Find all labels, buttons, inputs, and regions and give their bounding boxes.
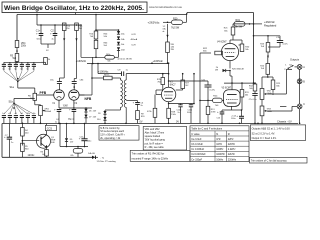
rail +160Vdc <box>87 62 168 64</box>
resistor R41 <box>21 123 30 146</box>
svg-text:33p: 33p <box>33 113 36 115</box>
capacitor Cb2 <box>8 116 12 124</box>
label +100Vdc <box>98 69 109 73</box>
svg-text:Alps ‘black’ 27mm: Alps ‘black’ 27mm <box>145 132 165 135</box>
lamp LP1 <box>71 147 83 158</box>
label 1.2mA dc <box>163 26 167 33</box>
svg-text:100u: 100u <box>87 140 91 142</box>
svg-text:2.2kHz: 2.2kHz <box>228 148 237 151</box>
labels D9 D10 <box>97 113 100 121</box>
svg-text:Output C = fixed 1.4V.: Output C = fixed 1.4V. <box>252 136 277 140</box>
zener D6 <box>84 109 87 115</box>
svg-text:D10: D10 <box>97 119 100 121</box>
resistor R6b <box>94 39 108 57</box>
wire tube1 top <box>58 84 60 90</box>
resistor R31 <box>240 83 249 110</box>
wire A-B <box>299 69 301 104</box>
resistor R1b <box>89 31 108 39</box>
pot VR2 <box>260 89 272 100</box>
wire v2 plate <box>168 62 170 87</box>
resistor R19 oval <box>234 22 245 27</box>
svg-text:Table for C and F selections: Table for C and F selections <box>191 128 223 131</box>
svg-text:all when 28.5W: all when 28.5W <box>118 59 132 61</box>
capacitor C11 <box>202 79 216 91</box>
label +262Vdc Regulated <box>264 20 277 27</box>
capacitor Ce2 <box>26 116 30 124</box>
resistor R28 <box>167 108 177 123</box>
svg-text:VR1 and VR2: VR1 and VR2 <box>145 128 161 131</box>
table C and F <box>190 126 249 162</box>
svg-text:500u: 500u <box>37 39 41 41</box>
svg-text:62k: 62k <box>71 155 74 157</box>
wire s1a common <box>18 82 35 94</box>
resistor R51 <box>21 143 30 157</box>
capacitor C7b <box>268 36 289 47</box>
pot VR1 <box>39 106 52 116</box>
svg-text:400mA: 400mA <box>131 38 138 41</box>
switch S1a <box>4 71 34 82</box>
svg-text:Outputs: Outputs <box>290 57 300 61</box>
svg-text:Outputs A&B S2 at 1, 1.4V to 1: Outputs A&B S2 at 1, 1.4V to 16V, <box>252 127 291 131</box>
label S1a <box>10 86 15 89</box>
svg-text:4u: 4u <box>52 39 54 41</box>
capacitor Ce <box>26 62 30 70</box>
resistor R18 <box>166 38 170 64</box>
labels D6 D7 <box>89 111 97 119</box>
capacitor Cc <box>14 62 18 70</box>
labels zener D4 <box>121 33 125 51</box>
svg-text:Ce: Ce <box>26 69 28 71</box>
capacitor C1 <box>36 25 43 44</box>
capacitor C11b2 <box>79 123 91 147</box>
wire B+ rail top <box>17 13 187 15</box>
label V3 <box>217 41 227 43</box>
svg-text:56k: 56k <box>104 36 107 38</box>
label 12Vdc <box>28 154 36 157</box>
resistor R13 <box>206 100 215 124</box>
tube V1a <box>54 90 65 101</box>
resistor R29 <box>147 95 157 124</box>
svg-text:Cc 0.033uF: Cc 0.033uF <box>191 148 204 151</box>
capacitor C4 <box>54 108 61 123</box>
svg-text:R - 49k, see table: R - 49k, see table <box>145 146 165 149</box>
switch S1b <box>4 102 34 114</box>
wire r24b node <box>262 76 273 88</box>
svg-text:Ca: Ca <box>2 69 4 71</box>
bank1 value labels <box>2 69 34 71</box>
label C6 <box>141 103 145 108</box>
svg-text:R20: R20 <box>173 18 178 21</box>
svg-text:22Hz: 22Hz <box>228 138 235 141</box>
note box VR1 VR2 <box>143 127 186 151</box>
svg-text:7k2 5W: 7k2 5W <box>171 26 180 29</box>
label R18 <box>171 44 175 51</box>
capacitor C13 <box>217 110 232 124</box>
svg-text:6.2V: 6.2V <box>132 45 137 47</box>
website note <box>149 5 183 9</box>
label C5 <box>72 119 75 121</box>
label R19 <box>234 19 243 29</box>
svg-text:Cd 0.0033uF: Cd 0.0033uF <box>191 153 206 156</box>
wire 262reg branch <box>233 23 262 25</box>
wire vr3 gnd <box>261 116 263 124</box>
wire left drop <box>16 15 18 41</box>
svg-text:u33: u33 <box>8 113 11 115</box>
svg-text:39k 5W: 39k 5W <box>234 26 243 29</box>
svg-text:‘6X8’: ‘6X8’ <box>63 106 69 108</box>
svg-text:D4b 6B: D4b 6B <box>88 153 95 155</box>
wire grid v1a <box>37 94 54 96</box>
wire v2 cathode <box>168 102 170 109</box>
svg-text:220Hz: 220Hz <box>228 143 236 146</box>
ps bottom rail <box>2 124 92 158</box>
resistor R32 <box>249 82 257 93</box>
svg-text:pot, fix R value =: pot, fix R value = <box>145 142 164 145</box>
label 0V mid <box>140 120 180 123</box>
svg-text:Ce 330pF: Ce 330pF <box>191 158 202 161</box>
label V1 <box>52 103 78 108</box>
wire vr1 gnd <box>40 116 42 125</box>
label Q1 <box>51 137 56 144</box>
wire vr3 wiper out <box>267 106 297 111</box>
resistor R20 oval <box>172 13 187 25</box>
switch S2 <box>284 64 293 71</box>
wire bus 25 <box>36 14 82 26</box>
label C2 <box>51 30 55 41</box>
capacitor Ca2 <box>2 116 6 124</box>
svg-text:S2 at 2 0.2V to 1.4V.: S2 at 2 0.2V to 1.4V. <box>252 131 276 135</box>
svg-text:0.47u: 0.47u <box>210 90 216 92</box>
svg-text:D6: D6 <box>89 111 91 113</box>
wire s2 A <box>295 66 298 68</box>
resistor R7b <box>157 74 165 88</box>
capacitor C6 <box>126 101 140 111</box>
note box outputs <box>250 125 305 140</box>
resistor R27 <box>176 73 190 90</box>
svg-text:56k: 56k <box>249 88 252 90</box>
svg-text:3u3: 3u3 <box>2 113 5 115</box>
label +160Vdc left <box>76 59 87 63</box>
label PFB <box>40 91 47 95</box>
resistor R25 <box>271 80 281 93</box>
svg-text:u03: u03 <box>14 113 17 115</box>
transformer T1 primary <box>121 80 123 107</box>
svg-text:C11+: C11+ <box>80 137 86 139</box>
label PT winding <box>97 157 117 163</box>
capacitor C7c <box>249 94 258 125</box>
switch S1b common <box>14 99 35 104</box>
capacitor Cc2 <box>14 116 18 124</box>
svg-text:square bodied: square bodied <box>145 135 161 138</box>
label +262Vdc <box>148 21 160 25</box>
resistor R6 <box>28 93 37 100</box>
resistor R9 <box>136 111 146 124</box>
svg-text:C value: C value <box>191 133 200 136</box>
svg-text:3.9M: 3.9M <box>211 112 216 114</box>
svg-text:50k: 50k <box>107 61 110 63</box>
label C11b <box>187 110 193 115</box>
svg-text:0V: 0V <box>176 121 179 124</box>
svg-text:+160Vdc: +160Vdc <box>153 59 164 63</box>
resistor VR4 <box>15 41 27 48</box>
label chassis <box>277 120 292 124</box>
wire r24 out <box>222 99 224 101</box>
wire q1 collector <box>46 124 48 132</box>
svg-text:330p: 330p <box>27 113 31 115</box>
svg-text:56k: 56k <box>245 94 248 96</box>
tube V1b <box>69 90 79 100</box>
label C10b <box>177 110 183 115</box>
wire tube2 top <box>73 84 75 90</box>
capacitor C8a <box>50 80 62 84</box>
capacitor Cb <box>8 62 12 70</box>
svg-text:2u: 2u <box>178 112 180 114</box>
wire v2 plate out <box>168 73 208 104</box>
wire vr2 wiper out <box>267 69 292 94</box>
svg-text:470k: 470k <box>147 111 151 113</box>
label S1b <box>9 101 14 104</box>
wire t1 sec top <box>125 74 127 80</box>
bank2 value labels <box>2 113 35 115</box>
label Outputs <box>290 57 300 61</box>
pot VR3 <box>260 106 272 116</box>
svg-text:Trim values of C for dial accu: Trim values of C for dial accuracy <box>251 160 288 163</box>
svg-text:CCS: CCS <box>47 127 53 130</box>
wire v4 plate rail <box>224 82 254 84</box>
wire v4 cathode <box>232 106 243 110</box>
zener D7 <box>84 115 87 124</box>
svg-text:+262Vdc: +262Vdc <box>148 21 160 25</box>
svg-text:500u: 500u <box>187 112 191 114</box>
wire B+ rail upper right <box>187 13 254 15</box>
wire v3 cathode <box>229 61 231 69</box>
wire plate col 1 <box>59 41 64 82</box>
label zener watts <box>118 59 132 61</box>
wire chassis <box>280 106 300 124</box>
label V4 <box>222 88 232 90</box>
capacitor Ca <box>2 62 6 70</box>
svg-text:3n3: 3n3 <box>20 113 23 115</box>
zener stack D4 <box>114 30 120 57</box>
svg-text:D4c: D4c <box>121 44 124 46</box>
ground rail <box>2 123 298 125</box>
svg-text:Cb: Cb <box>8 69 10 71</box>
transformer T1 secondary <box>124 80 126 107</box>
svg-text:D7: D7 <box>89 116 91 118</box>
svg-text:0V: 0V <box>140 120 143 123</box>
resistor R8 <box>92 74 121 80</box>
tube V4 envelope <box>224 90 241 107</box>
note box trim R <box>130 150 190 161</box>
resistor R2a <box>75 23 83 41</box>
wire t1 sec bottom <box>125 107 127 123</box>
resistor R21 <box>224 24 235 44</box>
capacitor C2 <box>50 25 57 44</box>
svg-text:12.6Vac PT winding: 12.6Vac PT winding <box>97 161 117 163</box>
svg-text:Regulated: Regulated <box>264 23 277 27</box>
svg-text:Cb 0.33uF: Cb 0.33uF <box>191 143 203 146</box>
svg-text:2u: 2u <box>11 142 13 144</box>
wire v3 to v4 plate <box>230 71 232 84</box>
capacitor Cd <box>20 62 24 70</box>
tube V3 <box>221 43 238 60</box>
svg-text:D4b: D4b <box>121 39 124 41</box>
wire r6-vr1 <box>35 100 41 105</box>
label C1 <box>36 30 41 41</box>
svg-text:200k: 200k <box>21 45 27 47</box>
svg-text:NFB: NFB <box>85 97 92 101</box>
svg-text:1W: 1W <box>215 70 218 72</box>
lamp bus <box>60 146 88 148</box>
zener D10 <box>103 117 106 123</box>
svg-text:1Hz: 1Hz <box>216 138 221 141</box>
svg-text:10Hz: 10Hz <box>216 143 223 146</box>
labels zener volts <box>131 34 138 47</box>
svg-text:5k6A: 5k6A <box>267 110 272 113</box>
current arrow <box>166 24 168 38</box>
wire vr4-r5 <box>16 48 18 54</box>
svg-text:R26 1N4148: R26 1N4148 <box>232 68 245 70</box>
label R20 <box>171 18 180 30</box>
svg-text:dc: dc <box>163 31 165 33</box>
wire 262 to 160 drop <box>81 25 105 64</box>
svg-text:www.homebuiltaudio.com.au: www.homebuiltaudio.com.au <box>149 5 183 9</box>
capacitor C8b <box>72 80 84 84</box>
trimmer CT <box>41 58 50 65</box>
label C4 <box>55 119 59 124</box>
svg-text:220kHz: 220kHz <box>228 158 237 161</box>
wire v1b cathode <box>59 100 92 109</box>
svg-text:R8 1k: R8 1k <box>104 74 110 76</box>
svg-text:C7c 0.1u: C7c 0.1u <box>249 99 257 101</box>
capacitor C11b <box>189 104 193 124</box>
svg-text:Cc: Cc <box>14 69 16 71</box>
title box <box>2 2 147 13</box>
resistor R5a <box>10 54 19 63</box>
wire right vertical feed <box>253 13 255 84</box>
svg-text:100u: 100u <box>231 118 235 120</box>
zener D9 <box>103 111 106 117</box>
resistor R61 <box>40 150 48 158</box>
resistor R22 <box>200 48 222 55</box>
svg-text:S1a: S1a <box>10 86 15 89</box>
connector C <box>297 104 305 109</box>
svg-text:C1+: C1+ <box>36 30 41 33</box>
wire t1 prim bottom <box>105 107 121 111</box>
svg-text:2u: 2u <box>55 122 57 124</box>
wire right col r23 <box>253 35 280 37</box>
capacitor C5 <box>69 108 76 123</box>
label NFB <box>85 97 92 101</box>
svg-text:Ca 3.3uF: Ca 3.3uF <box>191 138 202 141</box>
wire pfb <box>30 91 38 94</box>
svg-text:+100Vdc: +100Vdc <box>98 69 109 73</box>
svg-text:V4 6CM7: V4 6CM7 <box>217 41 227 43</box>
label 6V <box>68 118 71 121</box>
svg-text:100kA: 100kA <box>45 110 52 113</box>
transistor Q1 <box>37 131 51 150</box>
label CCS <box>45 125 56 130</box>
resistor R24 oval <box>213 96 223 107</box>
capacitor Cd2 <box>20 116 24 124</box>
svg-text:D9: D9 <box>98 113 100 115</box>
node 262 <box>163 22 171 24</box>
capacitor C7 <box>4 124 13 158</box>
resistor R24b <box>260 56 269 77</box>
svg-text:V5 6CM7: V5 6CM7 <box>222 88 232 90</box>
wire c11 to r24 <box>199 87 213 101</box>
svg-text:5k: 5k <box>48 59 50 61</box>
capacitor Cf2 <box>32 116 36 124</box>
resistor R30 <box>233 40 250 52</box>
resistor R1a <box>62 23 70 41</box>
svg-text:mounted F range 1KHz to 22kHz: mounted F range 1KHz to 22kHz <box>132 158 169 161</box>
wire grid v1b <box>79 94 84 96</box>
diode D11 <box>215 67 245 72</box>
rail +100Vdc <box>97 63 169 75</box>
label V2 <box>170 82 176 87</box>
label +160Vdc right <box>153 59 164 63</box>
diode D12 <box>88 153 98 159</box>
svg-text:R19: R19 <box>236 19 241 22</box>
connector A <box>297 65 305 70</box>
svg-text:6AC7: 6AC7 <box>170 83 176 86</box>
svg-text:Chassis - 0V: Chassis - 0V <box>277 120 292 124</box>
svg-text:+160Vdc: +160Vdc <box>76 59 87 63</box>
wire v3 grid col <box>199 53 201 123</box>
wire v4 top <box>231 83 233 90</box>
wire plate col 2 <box>73 41 76 88</box>
wire nfb col <box>79 63 93 95</box>
svg-text:→ To: → To <box>99 157 105 159</box>
svg-text:6.2V: 6.2V <box>132 34 137 36</box>
oval M1b <box>105 54 115 62</box>
wire q1 base <box>22 140 39 142</box>
svg-text:D4d: D4d <box>121 50 124 52</box>
wire cap gnd bus <box>41 44 55 52</box>
capacitor C10b <box>169 104 194 124</box>
svg-text:0.47u: 0.47u <box>283 44 289 46</box>
svg-text:2k, operating < 4k: 2k, operating < 4k <box>100 137 121 140</box>
svg-text:PFB: PFB <box>40 91 47 95</box>
wire v1a cathode <box>58 100 60 108</box>
svg-text:1000Hz: 1000Hz <box>216 153 225 156</box>
capacitor C14 <box>231 110 244 123</box>
note box trim C <box>250 157 308 163</box>
svg-text:S1b: S1b <box>9 101 14 104</box>
capacitor Cf <box>32 62 36 70</box>
svg-text:‘50k’ log dual gang: ‘50k’ log dual gang <box>145 139 166 142</box>
svg-text:100Hz: 100Hz <box>216 148 224 151</box>
tube V2 <box>161 87 175 101</box>
note box lamps <box>99 126 139 140</box>
svg-text:Trim values of R1: R# 262 for: Trim values of R1: R# 262 for <box>132 153 165 156</box>
svg-text:12Vdc: 12Vdc <box>28 154 36 157</box>
wire r7b down <box>156 88 163 95</box>
svg-text:Cd: Cd <box>20 69 22 71</box>
wire bus25 from rail <box>95 14 119 31</box>
capacitor bank1 bus <box>4 62 41 64</box>
svg-text:Wien Bridge Oscillator, 1Hz to: Wien Bridge Oscillator, 1Hz to 220kHz, 2… <box>4 5 144 12</box>
svg-text:22kHz: 22kHz <box>228 153 236 156</box>
wire 6V drop <box>59 123 61 147</box>
zener D8 <box>65 123 74 147</box>
connector B <box>297 79 305 84</box>
wire vr2-vr3 <box>261 99 263 106</box>
resistor R23 <box>260 36 270 58</box>
capacitor C9 <box>118 70 129 76</box>
svg-text:10kHz: 10kHz <box>216 158 224 161</box>
